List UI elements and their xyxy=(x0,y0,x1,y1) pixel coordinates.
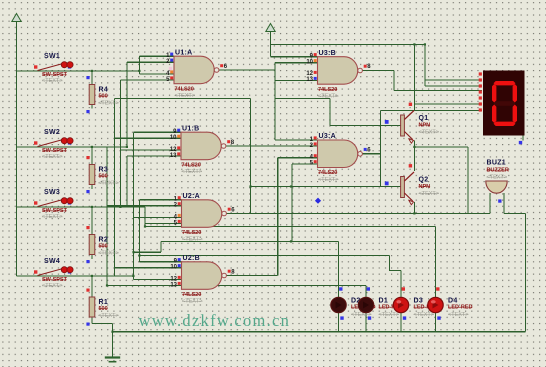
switch SW1 xyxy=(34,53,73,84)
svg-text:<TEXT>: <TEXT> xyxy=(414,312,434,318)
wire emitter rail xyxy=(226,213,490,215)
NAND gate U1:B 74LS20 xyxy=(170,125,235,175)
svg-text:SW4: SW4 xyxy=(44,258,60,265)
svg-text:<TEXT>: <TEXT> xyxy=(175,93,195,99)
wire R1 top stub xyxy=(91,276,93,297)
svg-text:<TEXT>: <TEXT> xyxy=(318,177,338,183)
wire stub U3:B p10 xyxy=(275,62,318,64)
svg-text:500: 500 xyxy=(99,94,108,100)
wire bus v5 vertical xyxy=(133,132,135,279)
svg-text:<TEXT>: <TEXT> xyxy=(448,312,468,318)
svg-text:<TEXT>: <TEXT> xyxy=(42,214,62,220)
wire R4 top stub xyxy=(91,71,93,85)
wire U2:B out vertical xyxy=(277,158,279,276)
wire stub U3:B p9 xyxy=(271,56,318,58)
resistor R2 500 xyxy=(86,226,118,263)
wire display bottom stub xyxy=(522,136,524,141)
wire R2 bottom stub xyxy=(91,255,93,260)
wire bus v3 SW3 vertical xyxy=(120,80,122,207)
svg-text:U1:A: U1:A xyxy=(175,49,193,56)
wire display feed y80 xyxy=(425,79,482,81)
wire left power rail vertical xyxy=(16,21,18,276)
node SW4/R1 xyxy=(91,275,93,277)
wire LED D2 feed v xyxy=(338,241,340,298)
wire bus v1 SW1 to U1:A p1 p4 xyxy=(139,56,141,74)
svg-text:<TEXT>: <TEXT> xyxy=(419,129,439,135)
node D2 jog xyxy=(132,251,134,253)
svg-text:SW1: SW1 xyxy=(44,53,60,60)
NAND gate U3:A 74LS20 xyxy=(310,133,372,183)
transistor Q2 NPN xyxy=(385,164,439,205)
svg-text:<TEXT>: <TEXT> xyxy=(98,250,118,256)
wire U2:B output run xyxy=(226,275,277,277)
svg-text:74LS20: 74LS20 xyxy=(182,230,201,236)
wire U3:A output run xyxy=(362,153,380,155)
switch SW3 xyxy=(34,189,73,220)
node SW3/bus xyxy=(119,206,121,208)
svg-text:10: 10 xyxy=(170,135,177,141)
svg-text:13: 13 xyxy=(170,153,177,159)
node SW1/bus xyxy=(138,70,140,72)
svg-text:D1: D1 xyxy=(379,298,389,305)
LED D4 LED-RED xyxy=(428,287,473,320)
svg-text:<TEXT>: <TEXT> xyxy=(42,154,62,160)
svg-text:<TEXT>: <TEXT> xyxy=(98,313,118,319)
wire Q1 collector vertical xyxy=(414,45,416,111)
wire bus v7 stub xyxy=(145,223,182,225)
node Q1 collector top xyxy=(413,43,415,45)
wire bus v3 stub U1:B p12 xyxy=(121,149,182,151)
wire column x275 xyxy=(274,63,276,140)
wire bus v8 stub U2:B p9 xyxy=(140,261,182,263)
wire display feed y110 xyxy=(381,110,483,112)
wire SW4 row xyxy=(17,275,134,277)
wire rail drop x425 xyxy=(424,45,426,87)
node D4 feed xyxy=(144,225,146,227)
svg-text:74LS20: 74LS20 xyxy=(182,292,201,298)
node SW1/R4 xyxy=(91,70,93,72)
ground xyxy=(105,356,120,362)
wire SW3 row xyxy=(17,206,146,208)
svg-text:U3:A: U3:A xyxy=(319,133,337,140)
NAND gate U2:A 74LS20 xyxy=(174,193,236,243)
svg-text:U3:B: U3:B xyxy=(319,50,337,57)
wire R1 bottom jog xyxy=(92,322,113,324)
7-segment display xyxy=(479,71,525,145)
node Q1e/Q2c xyxy=(413,146,415,148)
node D3 feed xyxy=(138,254,140,256)
wire bus v4 stub top xyxy=(115,98,251,100)
wire branch to Q1 base v xyxy=(329,99,331,126)
wire R4 bottom stub xyxy=(91,105,93,109)
wire R3 top stub xyxy=(91,147,93,165)
wire stub U3:A p1 xyxy=(275,139,318,141)
wire bus v5 stub U1:B p9 xyxy=(134,131,182,133)
wire Q1 emitter leg h xyxy=(415,146,469,148)
svg-text:<TEXT>: <TEXT> xyxy=(419,191,439,197)
wire LED D3 feed v xyxy=(400,271,402,299)
wire bus v9 stub xyxy=(127,155,181,157)
wire Q1 emitter leg v xyxy=(414,141,416,148)
node SW2/bus xyxy=(126,146,128,148)
wire display feed y104 xyxy=(415,103,483,105)
node SW3/R2 xyxy=(91,206,93,208)
svg-text:D3: D3 xyxy=(414,298,424,305)
wire Q2 emitter leg xyxy=(414,202,416,214)
wire bus v8 vertical xyxy=(139,200,141,262)
wire U3:B output run xyxy=(362,69,394,71)
wire U3:A output vertical xyxy=(380,111,382,187)
svg-text:R1: R1 xyxy=(99,299,109,306)
transistor Q1 NPN xyxy=(385,103,439,144)
wire LED D3 feed jog xyxy=(390,256,402,271)
wire power rail top xyxy=(271,44,426,46)
wire LED D3 feed h xyxy=(140,255,390,257)
wire buzzer right pin h xyxy=(504,213,525,215)
wire bus v6 stub U2:A p2 xyxy=(107,205,182,207)
resistor R3 500 xyxy=(86,156,118,193)
wire Q1 base wire xyxy=(330,125,401,127)
svg-text:D4: D4 xyxy=(448,298,458,305)
wire LED D2 feed h xyxy=(161,240,339,242)
svg-text:<TEXT>: <TEXT> xyxy=(318,94,338,100)
power terminal arrow top-center xyxy=(266,24,275,32)
wire ground drop xyxy=(112,323,114,357)
svg-text:NPN: NPN xyxy=(419,123,431,129)
switch SW2 xyxy=(34,129,73,160)
wire bus v1 stub p4 xyxy=(140,73,175,75)
node rail/ground xyxy=(111,331,113,333)
svg-text:74LS20: 74LS20 xyxy=(182,162,201,168)
svg-text:Q2: Q2 xyxy=(419,176,429,183)
wire bus v1 stub p1 xyxy=(140,55,175,57)
wire bus v2 stub xyxy=(127,61,174,63)
power terminal arrow left xyxy=(12,14,21,22)
wire bus v2 SW2 to U1:A p2 xyxy=(126,62,128,147)
wire bus v4 vertical to SW4 xyxy=(114,99,116,276)
wire bus v5 stub U2:B p12 xyxy=(134,279,182,281)
resistor R1 500 xyxy=(86,289,118,326)
wire bus v6 SW2 vertical xyxy=(106,147,108,286)
buzzer BUZ1 xyxy=(486,160,509,203)
svg-text:R2: R2 xyxy=(99,237,109,244)
node emitter rail x415 xyxy=(413,212,415,214)
svg-text:<TEXT>: <TEXT> xyxy=(98,180,118,186)
wire Q2 collector leg xyxy=(414,147,416,171)
wire LED D4 bottom xyxy=(435,312,437,332)
switch SW4 xyxy=(34,258,73,289)
wire branch to Q1 base h1 xyxy=(275,98,330,100)
LED D2 LED-RED xyxy=(331,287,376,320)
svg-text:10: 10 xyxy=(306,60,313,66)
node p5/D2feed xyxy=(290,240,292,242)
svg-text:LED-RED: LED-RED xyxy=(448,305,472,311)
wire SW2 row xyxy=(17,146,128,148)
wire LED D4 feed v xyxy=(435,227,437,299)
svg-text:SW3: SW3 xyxy=(44,189,60,196)
wire buzzer right pin xyxy=(503,193,505,214)
svg-text:U2:A: U2:A xyxy=(183,193,201,200)
svg-text:10: 10 xyxy=(170,265,177,271)
svg-text:www.dzkfw.com.cn: www.dzkfw.com.cn xyxy=(139,311,291,330)
wire Q1 emitter leg v2 xyxy=(467,147,469,214)
svg-text:13: 13 xyxy=(306,77,313,83)
svg-text:74LS20: 74LS20 xyxy=(318,87,337,93)
LED D1 LED-RED xyxy=(358,287,403,320)
wire U1:B output to U3:A p2 xyxy=(226,145,318,147)
svg-text:NPN: NPN xyxy=(419,184,431,190)
svg-text:74LS20: 74LS20 xyxy=(175,86,194,92)
svg-text:<TEXT>: <TEXT> xyxy=(182,169,202,175)
node D1 feed xyxy=(106,284,108,286)
wire LED D1 bottom xyxy=(365,312,367,332)
wire buzzer left pin xyxy=(489,193,491,214)
svg-text:500: 500 xyxy=(99,174,108,180)
wire bus v4 stub U1:B p10 xyxy=(115,137,182,139)
wire U3:B output to display xyxy=(394,90,482,92)
wire right vertical to rail xyxy=(524,214,526,332)
node rail drop x425 xyxy=(424,43,426,45)
wire R3 bottom stub xyxy=(91,185,93,190)
svg-text:R4: R4 xyxy=(99,87,109,94)
wire R2 top stub xyxy=(91,207,93,235)
svg-text:U1:B: U1:B xyxy=(182,125,200,132)
wire bus v5 stub U2:A p4 xyxy=(134,217,182,219)
node SW4/bus xyxy=(132,275,134,277)
svg-text:U2:B: U2:B xyxy=(183,255,201,262)
svg-text:<TEXT>: <TEXT> xyxy=(182,237,202,243)
svg-text:R3: R3 xyxy=(99,167,109,174)
svg-text:BUZ1: BUZ1 xyxy=(487,160,506,167)
wire U3:B output drop xyxy=(393,71,395,91)
wire stub U3:A p5 xyxy=(292,163,318,165)
svg-text:74LS20: 74LS20 xyxy=(318,170,337,176)
blue probe marker xyxy=(315,198,321,204)
svg-text:BUZZER: BUZZER xyxy=(487,168,509,174)
wire LED D1 feed v xyxy=(365,286,367,299)
wire bottom ground rail xyxy=(113,331,526,333)
svg-text:500: 500 xyxy=(99,306,108,312)
wire SW1 row xyxy=(17,70,140,72)
node p5/Q2base xyxy=(290,185,292,187)
svg-text:<TEXT>: <TEXT> xyxy=(98,100,118,106)
NAND gate U1:A 74LS20 xyxy=(166,49,228,99)
svg-text:<TEXT>: <TEXT> xyxy=(182,299,202,305)
wire display feed y86 xyxy=(425,85,482,87)
wire bus v7 SW3 to U2:A p5 xyxy=(144,207,146,227)
wire stub U3:B p13 xyxy=(275,80,318,82)
svg-text:13: 13 xyxy=(170,282,177,288)
wire Q2 base wire xyxy=(251,186,401,188)
resistor R4 500 xyxy=(86,76,118,113)
wire x250 vertical xyxy=(250,99,252,214)
wire bus v9 U1:B p13 vertical xyxy=(126,156,128,207)
indicator square xyxy=(169,67,172,70)
wire LED D3 bottom xyxy=(400,312,402,332)
svg-text:<TEXT>: <TEXT> xyxy=(42,283,62,289)
NAND gate U3:B 74LS20 xyxy=(306,50,371,100)
wire R1 bottom stub xyxy=(91,317,93,323)
wire LED D2 feed jogh xyxy=(134,251,161,253)
wire LED D2 bottom xyxy=(338,312,340,332)
LED D3 LED-RED xyxy=(393,287,438,320)
node SW2/R3 xyxy=(91,146,93,148)
svg-text:500: 500 xyxy=(99,244,108,250)
wire U3:A p5 vertical xyxy=(291,164,293,241)
svg-text:<TEXT>: <TEXT> xyxy=(42,78,62,84)
wire arrow2 stem xyxy=(270,31,272,57)
node x250/Q2base xyxy=(249,185,251,187)
wire LED D1 feed h xyxy=(107,285,366,287)
wire bus v3 stub U1:A p5 xyxy=(121,79,175,81)
svg-text:SW2: SW2 xyxy=(44,129,60,136)
wire bus v4 stub U2:B p10 xyxy=(115,267,182,269)
wire bus v8 stub U2:A p1 xyxy=(140,199,182,201)
svg-text:<TEXT>: <TEXT> xyxy=(379,312,399,318)
wire LED D4 feed h xyxy=(145,226,436,228)
wire U1:A output run xyxy=(219,69,275,71)
NAND gate U2:B 74LS20 xyxy=(170,255,235,305)
wire stub U3:A p4 xyxy=(278,157,318,159)
svg-text:Q1: Q1 xyxy=(419,115,429,122)
svg-text:<TEXT>: <TEXT> xyxy=(487,175,507,181)
wire LED D2 feed jogv xyxy=(160,241,162,252)
